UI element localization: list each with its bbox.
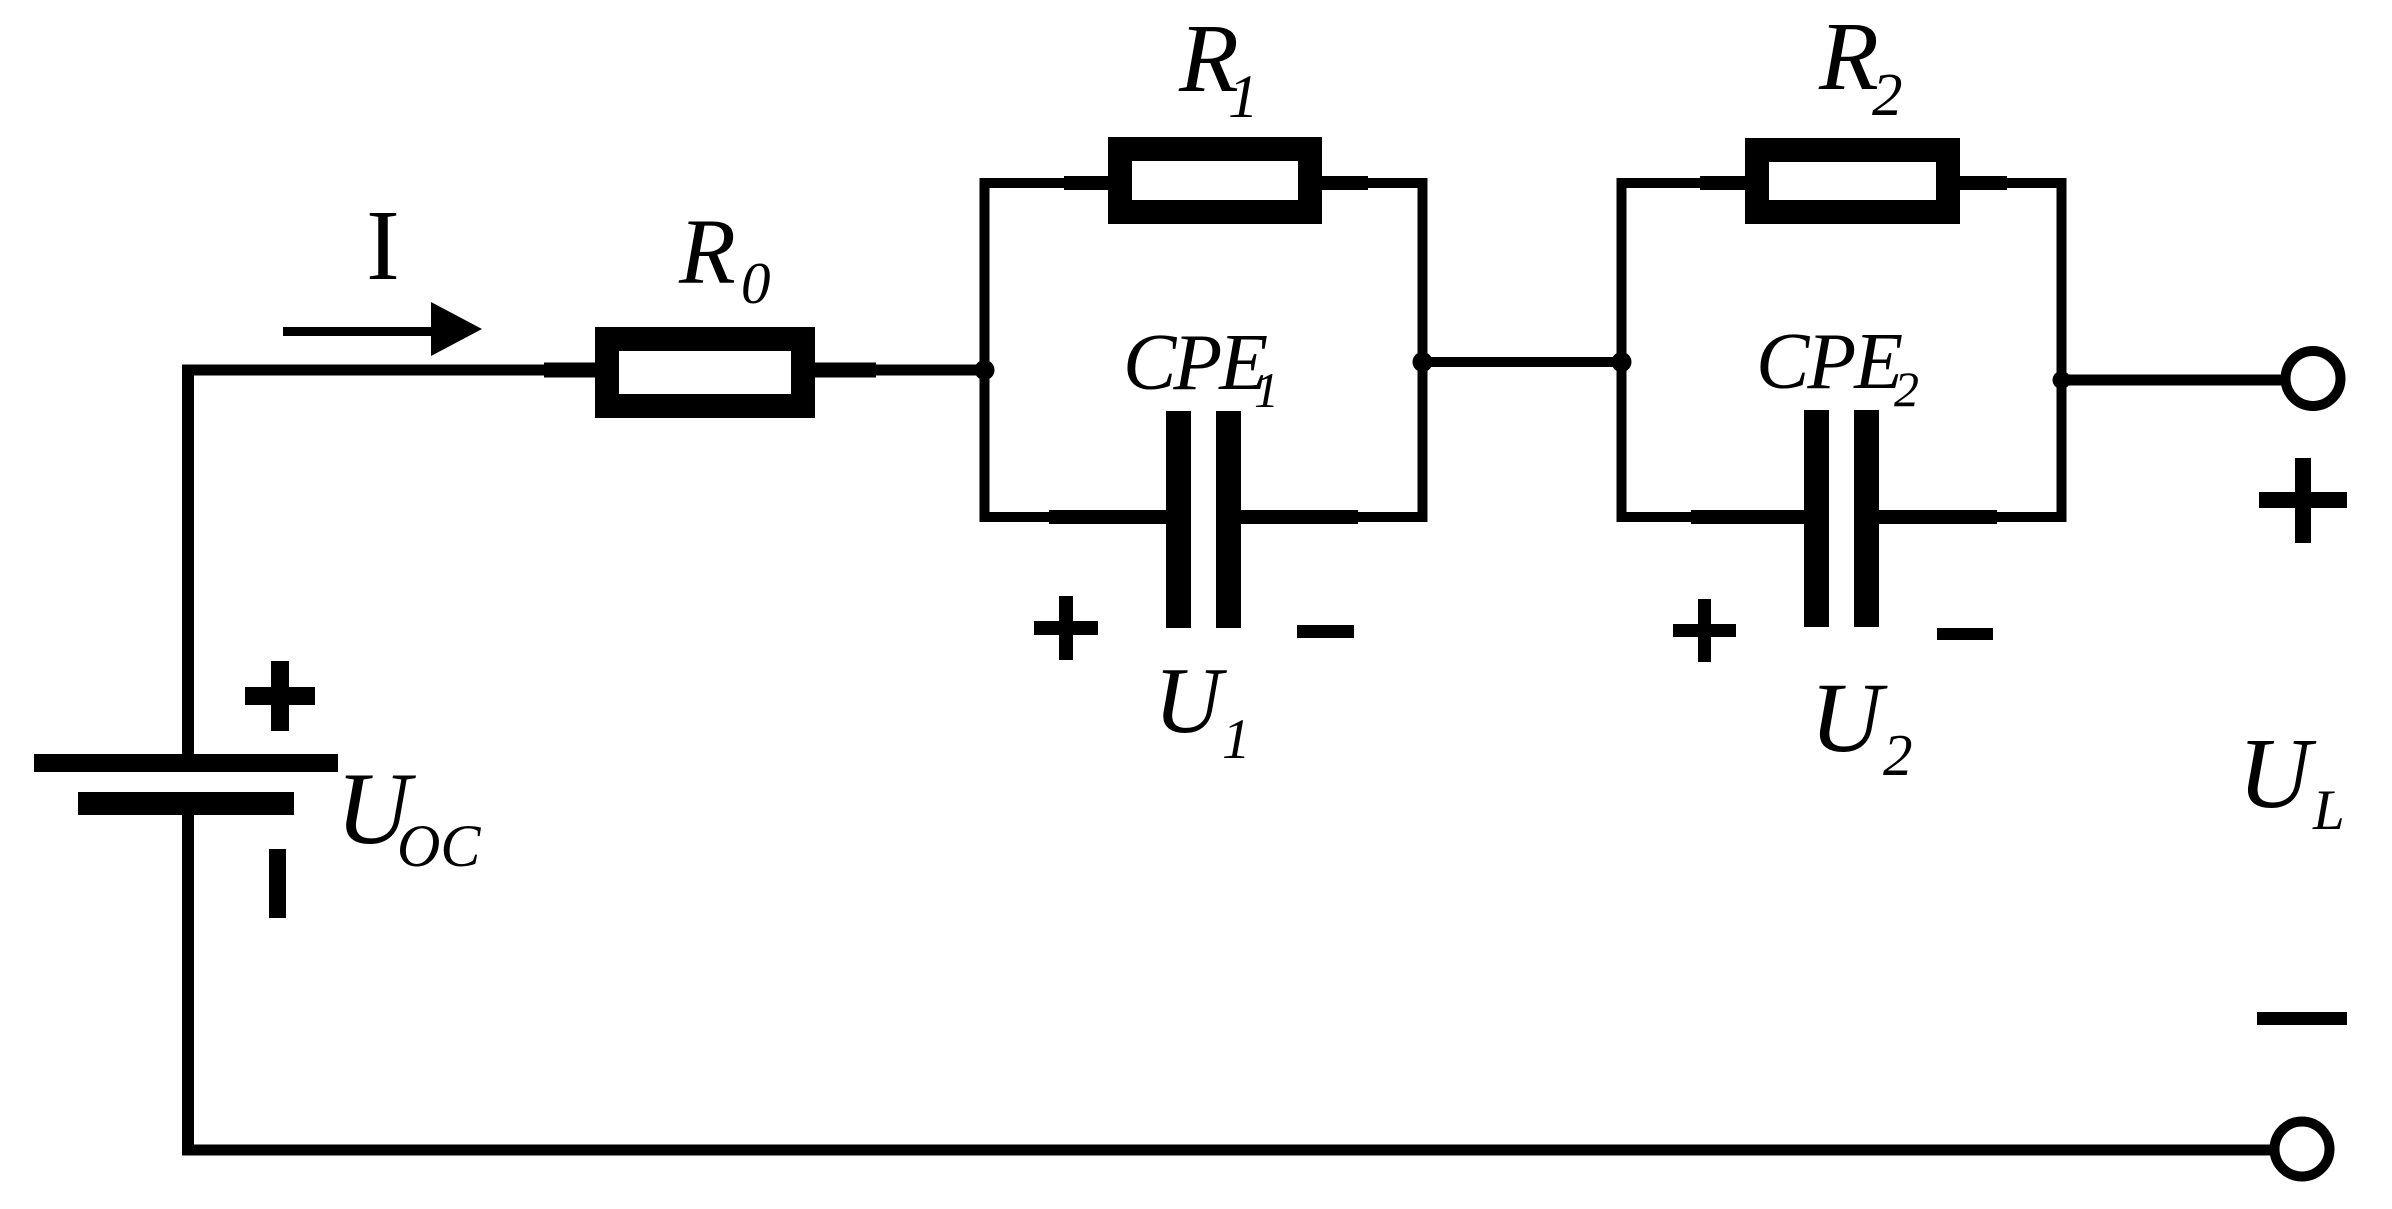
svg-text:R: R	[678, 201, 736, 304]
svg-text:0: 0	[741, 250, 771, 316]
svg-text:2: 2	[1894, 361, 1919, 417]
svg-text:L: L	[2312, 779, 2345, 842]
svg-text:1: 1	[1228, 64, 1259, 131]
svg-text:1: 1	[1222, 708, 1251, 771]
svg-text:OC: OC	[397, 813, 481, 879]
svg-text:2: 2	[1883, 722, 1913, 788]
svg-text:1: 1	[1254, 362, 1279, 418]
svg-text:I: I	[366, 189, 400, 301]
svg-text:U: U	[1810, 662, 1888, 773]
svg-text:2: 2	[1872, 62, 1903, 129]
svg-text:U: U	[1154, 649, 1227, 753]
svg-text:U: U	[2238, 717, 2317, 829]
svg-text:CPE: CPE	[1123, 319, 1267, 407]
svg-text:R: R	[1818, 3, 1879, 111]
svg-text:CPE: CPE	[1756, 318, 1902, 406]
